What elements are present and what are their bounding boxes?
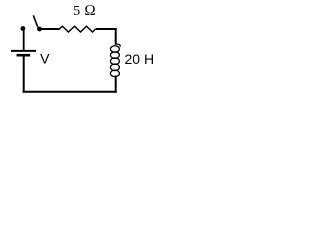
wire (right, corner down to inductor) <box>115 28 117 45</box>
wire (top, contact B to resistor) <box>41 28 60 30</box>
wire (top, resistor to top-right corner) <box>96 28 117 30</box>
node A (left switch contact) <box>21 26 26 31</box>
svg-text:5: 5 <box>73 4 80 19</box>
inductor hook (wire into first turn) <box>116 44 121 47</box>
svg-text:V: V <box>40 51 50 67</box>
inductor L turn 2 <box>110 52 119 59</box>
wire (battery plus plate up to contact A) <box>23 29 25 51</box>
inductor L turn 3 <box>110 58 119 64</box>
inductor L turn 4 <box>110 64 119 71</box>
switch S blade (open) <box>33 15 37 27</box>
inductor L turn 5 <box>110 70 119 77</box>
node B (right switch contact) <box>37 27 42 32</box>
wire (left, bottom corner up to battery minus plate) <box>23 56 25 92</box>
wire (right, inductor to bottom-right corner) <box>115 76 117 93</box>
resistor R zigzag <box>59 26 95 32</box>
inductor L turn 1 <box>110 46 119 53</box>
svg-text:Ω: Ω <box>84 3 96 19</box>
battery V plus plate (long) <box>11 50 36 52</box>
battery V minus plate (short thick) <box>17 54 31 57</box>
svg-text:20 H: 20 H <box>125 51 155 67</box>
wire (bottom) <box>23 91 117 93</box>
